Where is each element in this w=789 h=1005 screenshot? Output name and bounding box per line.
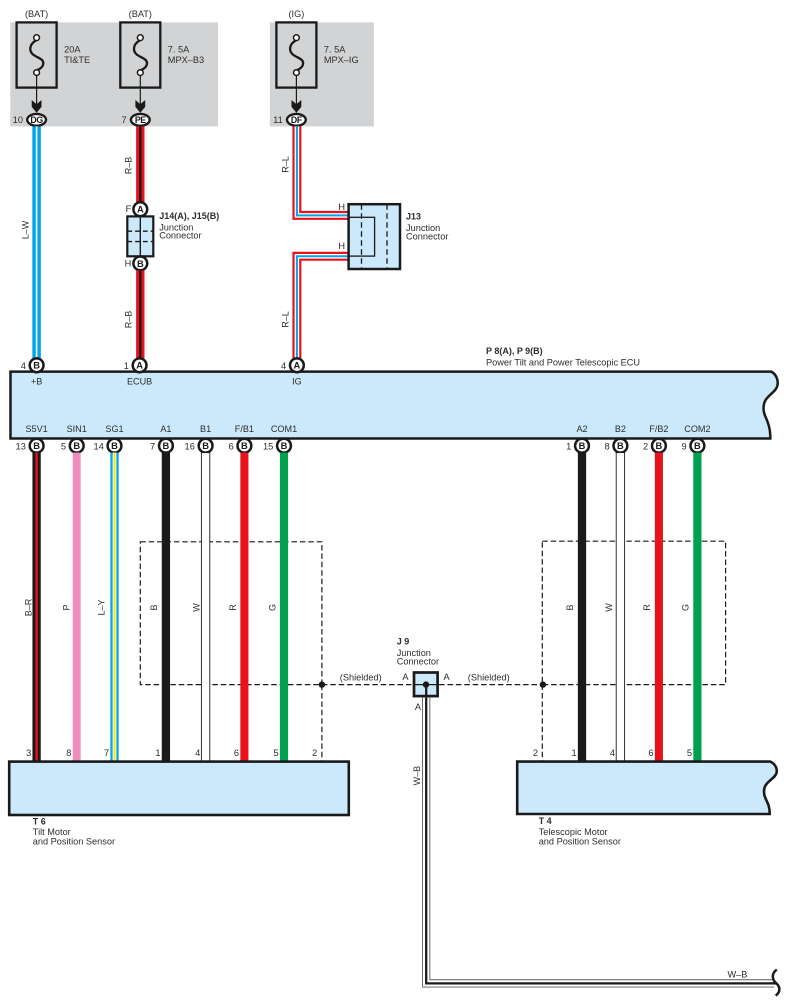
svg-text:T 4: T 4	[539, 816, 552, 826]
svg-text:9: 9	[682, 442, 687, 452]
wire B-R ECU S5V1 to T6 pin 3	[32, 453, 40, 762]
svg-text:COM1: COM1	[271, 424, 297, 434]
svg-text:1: 1	[566, 442, 571, 452]
svg-text:B: B	[241, 441, 248, 451]
J14 pin A	[133, 202, 147, 216]
svg-text:16: 16	[185, 442, 195, 452]
svg-text:1: 1	[155, 748, 160, 758]
svg-text:(Shielded): (Shielded)	[468, 673, 510, 683]
svg-text:A: A	[294, 361, 301, 371]
junction connector J13	[349, 204, 400, 269]
svg-text:(BAT): (BAT)	[25, 9, 48, 19]
svg-text:Telescopic Motor: Telescopic Motor	[539, 827, 608, 837]
svg-text:A: A	[415, 702, 422, 712]
svg-text:TI&TE: TI&TE	[64, 55, 90, 65]
wire G ECU COM2 to T4 pin 5	[693, 453, 701, 762]
shield line J9 to right box	[439, 684, 542, 686]
svg-text:Connector: Connector	[406, 231, 448, 241]
wire fuse TI&TE to pin 10 with arrow	[36, 76, 38, 111]
shield junction node left	[319, 681, 325, 687]
svg-text:A: A	[137, 205, 144, 215]
wire R ECU F/B1 to T6 pin 6	[240, 453, 248, 762]
svg-text:ECUB: ECUB	[127, 376, 152, 386]
svg-text:B–R: B–R	[23, 598, 33, 616]
svg-text:B: B	[565, 604, 575, 610]
svg-text:J14(A), J15(B): J14(A), J15(B)	[159, 211, 219, 221]
svg-text:J13: J13	[406, 212, 421, 222]
svg-text:1: 1	[572, 748, 577, 758]
svg-text:5: 5	[61, 442, 66, 452]
fuse 7. 5A MPX–B3 symbol	[120, 22, 160, 87]
wire fuse MPX–B3 to pin 7 with arrow	[139, 76, 141, 111]
fuse 20A TI&TE symbol	[17, 22, 57, 87]
svg-text:(IG): (IG)	[288, 9, 304, 19]
svg-text:B: B	[281, 441, 288, 451]
ECU top pin 1 (A) ECUB	[133, 358, 147, 372]
shield box left (dashed)	[140, 542, 322, 685]
svg-text:B: B	[617, 441, 624, 451]
svg-text:T 6: T 6	[33, 816, 46, 826]
svg-text:L–Y: L–Y	[97, 599, 107, 615]
J14 pin B	[133, 257, 147, 271]
svg-text:6: 6	[648, 748, 653, 758]
svg-text:B: B	[33, 441, 40, 451]
component T4 Telescopic Motor and Position Sensor	[517, 762, 777, 814]
wire R-L J13 to ECU IG (lower segment)	[297, 256, 349, 358]
svg-text:B: B	[656, 441, 663, 451]
svg-text:13: 13	[16, 442, 26, 452]
svg-text:F: F	[126, 204, 132, 214]
svg-text:Power Tilt and Power Telescopi: Power Tilt and Power Telescopic ECU	[486, 358, 640, 368]
svg-text:Tilt Motor: Tilt Motor	[33, 827, 71, 837]
svg-text:B: B	[163, 441, 170, 451]
svg-text:3: 3	[26, 748, 31, 758]
pin 11 (DF)	[287, 114, 306, 126]
svg-text:7: 7	[104, 748, 109, 758]
svg-text:W–B: W–B	[728, 970, 748, 980]
svg-text:W: W	[604, 603, 614, 612]
ECU top pin 4 (B) +B	[30, 358, 44, 372]
svg-text:7. 5A: 7. 5A	[324, 45, 346, 55]
svg-text:and Position Sensor: and Position Sensor	[33, 837, 115, 847]
shield junction node right	[540, 681, 546, 687]
junction connector J14(A), J15(B)	[127, 216, 153, 256]
wire G ECU COM1 to T6 pin 5	[280, 453, 288, 762]
svg-text:4: 4	[21, 361, 26, 371]
svg-text:IG: IG	[292, 376, 302, 386]
svg-text:Connector: Connector	[397, 656, 439, 666]
svg-text:B: B	[33, 361, 40, 371]
wire B ECU A2 to T4 pin 1	[578, 453, 586, 762]
svg-text:PE: PE	[135, 115, 146, 125]
svg-text:H: H	[125, 258, 132, 268]
svg-text:R: R	[228, 604, 238, 611]
svg-text:R–L: R–L	[281, 156, 291, 173]
svg-text:MPX–IG: MPX–IG	[324, 55, 359, 65]
fuse block background (MPX–IG)	[270, 22, 374, 126]
svg-text:P: P	[62, 604, 72, 610]
shield line left box to J9	[322, 684, 416, 686]
wire W ECU B2 to T4 pin 4	[616, 453, 624, 762]
svg-text:G: G	[680, 604, 690, 611]
svg-text:14: 14	[93, 442, 103, 452]
wire R-L fuse MPX-IG to J13 (upper segment)	[297, 126, 349, 215]
svg-text:(BAT): (BAT)	[129, 9, 152, 19]
svg-text:+B: +B	[31, 376, 42, 386]
svg-text:SIN1: SIN1	[67, 424, 87, 434]
svg-text:7: 7	[122, 115, 127, 125]
svg-text:Connector: Connector	[159, 231, 201, 241]
wire R ECU F/B2 to T4 pin 6	[655, 453, 663, 762]
svg-text:W–B: W–B	[412, 766, 422, 786]
svg-text:J 9: J 9	[397, 637, 410, 647]
svg-text:COM2: COM2	[684, 424, 710, 434]
svg-text:DG: DG	[30, 115, 43, 125]
svg-text:H: H	[338, 202, 345, 212]
svg-text:2: 2	[312, 748, 317, 758]
svg-text:A1: A1	[160, 424, 171, 434]
svg-text:8: 8	[605, 442, 610, 452]
svg-text:H: H	[338, 241, 345, 251]
svg-text:4: 4	[610, 748, 615, 758]
svg-text:2: 2	[533, 748, 538, 758]
svg-text:8: 8	[66, 748, 71, 758]
svg-text:P 8(A), P 9(B): P 8(A), P 9(B)	[486, 346, 543, 356]
J9 node	[423, 681, 429, 687]
svg-text:B: B	[73, 441, 80, 451]
wire fuse MPX–IG to pin 11 with arrow	[295, 76, 297, 111]
svg-text:S5V1: S5V1	[25, 424, 47, 434]
ECU top pin 4 (A) IG	[290, 358, 304, 372]
svg-text:R–B: R–B	[123, 311, 133, 329]
shield drop left to T6	[321, 685, 323, 762]
svg-text:SG1: SG1	[105, 424, 123, 434]
svg-text:B: B	[694, 441, 701, 451]
svg-text:L–W: L–W	[21, 220, 31, 239]
svg-text:DF: DF	[291, 115, 303, 125]
wire B ECU A1 to T6 pin 1	[162, 453, 170, 762]
svg-text:5: 5	[687, 748, 692, 758]
svg-text:4: 4	[281, 361, 286, 371]
wire L-W fuse 20A to ECU +B	[32, 126, 41, 358]
svg-text:F/B1: F/B1	[235, 424, 254, 434]
svg-text:B: B	[149, 604, 159, 610]
wire R-B J14 pin B to ECU ECUB	[136, 270, 144, 358]
svg-text:B2: B2	[615, 424, 626, 434]
pin 10 (DG)	[27, 114, 46, 126]
svg-text:A: A	[136, 361, 143, 371]
svg-text:1: 1	[124, 361, 129, 371]
continuation break squiggle	[772, 982, 777, 984]
svg-text:W: W	[191, 603, 201, 612]
wire L-Y ECU SG1 to T6 pin 7	[110, 453, 118, 762]
svg-text:B: B	[137, 259, 144, 269]
svg-text:5: 5	[274, 748, 279, 758]
wire P ECU SIN1 to T6 pin 8	[73, 453, 81, 762]
svg-text:11: 11	[273, 115, 283, 125]
svg-text:6: 6	[229, 442, 234, 452]
svg-text:B1: B1	[200, 424, 211, 434]
svg-text:6: 6	[234, 748, 239, 758]
svg-text:R–L: R–L	[281, 311, 291, 328]
svg-text:7: 7	[150, 442, 155, 452]
svg-text:B: B	[111, 441, 118, 451]
shield drop right to T4	[541, 685, 543, 762]
svg-text:R: R	[642, 604, 652, 611]
wire R-B fuse MPX-B3 to J14 pin A	[136, 126, 144, 202]
svg-text:4: 4	[195, 748, 200, 758]
fuse block background (TI&TE)	[10, 22, 114, 126]
svg-text:A2: A2	[576, 424, 587, 434]
fuse 7. 5A MPX–IG symbol	[276, 22, 316, 87]
svg-text:B: B	[579, 441, 586, 451]
svg-text:20A: 20A	[64, 45, 81, 55]
svg-text:MPX–B3: MPX–B3	[168, 55, 204, 65]
fuse block background (MPX–B3)	[114, 22, 218, 126]
svg-text:A: A	[444, 672, 451, 682]
wire W-B J9 to ground (vertical + horizontal)	[426, 698, 774, 984]
svg-text:G: G	[267, 604, 277, 611]
svg-text:15: 15	[263, 442, 273, 452]
svg-text:B: B	[202, 441, 209, 451]
svg-text:7. 5A: 7. 5A	[168, 45, 190, 55]
svg-text:A: A	[402, 672, 409, 682]
svg-text:R–B: R–B	[123, 157, 133, 175]
component T6 Tilt Motor and Position Sensor	[9, 762, 349, 815]
svg-text:2: 2	[643, 442, 648, 452]
wire W ECU B1 to T6 pin 4	[201, 453, 209, 762]
shield box right (dashed)	[542, 541, 725, 684]
svg-text:10: 10	[13, 115, 23, 125]
svg-text:(Shielded): (Shielded)	[340, 673, 382, 683]
svg-text:and Position Sensor: and Position Sensor	[539, 837, 621, 847]
svg-text:F/B2: F/B2	[649, 424, 668, 434]
pin 7 (PE)	[131, 114, 150, 126]
